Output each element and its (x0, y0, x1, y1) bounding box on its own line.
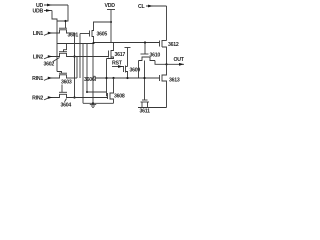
svg-text:LIN2: LIN2 (33, 54, 44, 60)
wire A UDB horizontal (57, 43, 94, 45)
wire RIN1 arrow (44, 78, 59, 80)
wire 3605-3606 drain column (92, 44, 94, 77)
wire 3610 right to out (155, 61, 167, 65)
wire gate net vertical 3617-3606-3608 (106, 59, 108, 97)
wire RST arrow (112, 66, 124, 68)
wire 3610 left down (138, 61, 140, 79)
svg-text:3608: 3608 (114, 94, 125, 100)
wire UD gate lead 3601 (65, 21, 67, 28)
wire 3605 gate net vertical (79, 34, 81, 79)
wire LIN1 arrow (44, 33, 59, 35)
wire 3610 gate drop (144, 43, 146, 55)
wire rail 3602 out to 3617 gate (67, 56, 109, 58)
wire UDB stair (52, 11, 57, 72)
svg-text:3610: 3610 (150, 53, 161, 59)
wire 3603 out short (67, 77, 77, 79)
node junction latch d corner (86, 91, 88, 93)
wire rail 3604 out to 3608 (67, 97, 108, 99)
transistor 3603 (59, 73, 67, 78)
node junction 3601 to 3604 rail (73, 96, 75, 98)
transistor 3617 (107, 43, 114, 59)
wire CL (146, 5, 167, 7)
power VDD stub 3609 (125, 47, 131, 49)
svg-text:UDB: UDB (33, 9, 44, 15)
wire bottom right rail (138, 107, 167, 109)
leader 3604 (65, 99, 67, 102)
wire cap feed (144, 61, 146, 101)
transistor 3608 (107, 78, 114, 103)
wire OUT arrow (167, 63, 185, 65)
node junction dot UD (64, 20, 66, 22)
svg-text:3603: 3603 (61, 80, 72, 86)
wire latch vertical b (82, 44, 84, 104)
svg-text:3611: 3611 (140, 109, 151, 115)
transistor 3601 (59, 28, 67, 33)
svg-text:RIN2: RIN2 (32, 95, 43, 101)
svg-text:RST: RST (112, 61, 123, 67)
svg-text:LIN1: LIN1 (33, 31, 44, 37)
svg-text:3605: 3605 (97, 32, 108, 38)
svg-text:3604: 3604 (61, 103, 72, 109)
wire VDD down (110, 10, 112, 43)
wire 3603 to 3604 gate (61, 85, 63, 93)
svg-text:3617: 3617 (115, 52, 126, 58)
svg-text:3602: 3602 (44, 62, 55, 68)
transistor 3604 (59, 92, 67, 97)
svg-text:OUT: OUT (174, 57, 185, 63)
svg-text:VDD: VDD (105, 3, 116, 9)
node junction VDD 3605 drain (110, 21, 112, 23)
transistor 3610 (139, 54, 156, 61)
transistor 3605 (80, 22, 111, 44)
svg-text:CL: CL (138, 4, 145, 10)
wire mid rail to 3613 gate (96, 77, 160, 79)
transistor 3612 (160, 40, 167, 64)
transistor 3613 (160, 64, 167, 107)
transistor 3602 (59, 52, 67, 57)
leader 3602 (53, 58, 60, 62)
wire LIN2 arrow (44, 57, 59, 59)
power VDD bar (107, 9, 115, 11)
wire UD elbow down (57, 5, 68, 21)
node junction 3601-3602 (73, 55, 75, 57)
transistor 3609 (124, 66, 128, 79)
wire UD arrow (44, 4, 68, 6)
wire UDB to 3603 gate (57, 72, 62, 74)
capacitor 3611 (141, 100, 150, 108)
svg-text:3613: 3613 (169, 78, 180, 84)
wire bottom rail (83, 102, 114, 104)
wire VDD rail B (94, 42, 160, 44)
svg-text:3612: 3612 (168, 42, 179, 48)
wire latch vertical d (87, 44, 107, 93)
wire latch vertical c (76, 57, 78, 79)
wire RIN2 arrow (44, 98, 59, 100)
wire UDB arrow (44, 10, 52, 12)
wire 3601 out (67, 33, 75, 98)
wire 3606 source to ground rail (92, 82, 94, 104)
svg-text:RIN1: RIN1 (32, 76, 43, 82)
ground (90, 103, 96, 107)
transistor 3606 (93, 76, 95, 82)
wire 3602 gate lead (64, 44, 67, 52)
